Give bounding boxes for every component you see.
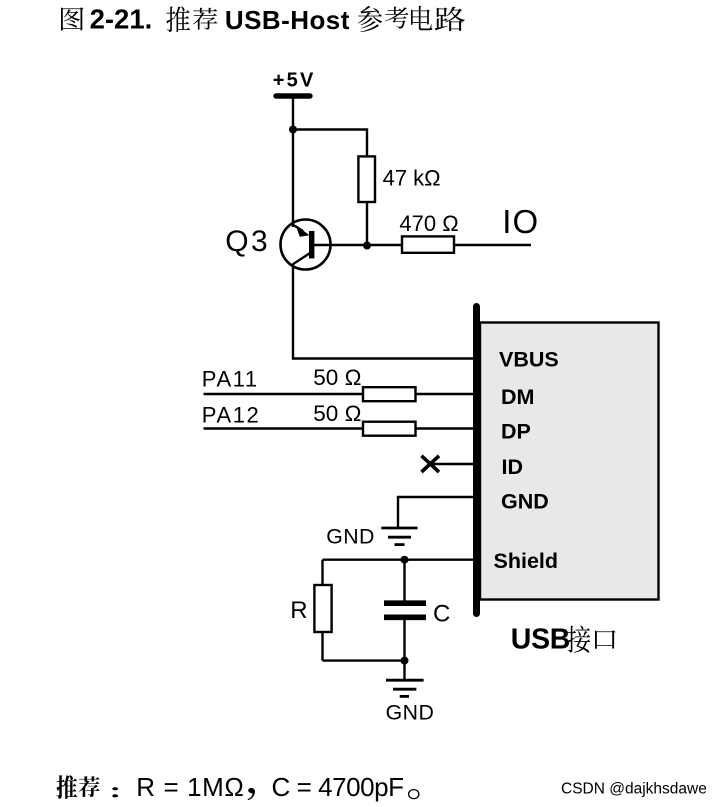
svg-text:USB: USB — [511, 624, 570, 656]
USB connector body box — [480, 323, 659, 600]
svg-text:DM: DM — [501, 385, 534, 409]
wire: X mark to ID pin — [430, 463, 473, 465]
svg-text:ID: ID — [502, 455, 524, 479]
svg-text:2-21.: 2-21. — [90, 4, 153, 35]
svg-text:GND: GND — [501, 489, 549, 513]
note: 推荐：R = 1MΩ，C = 4700pF。 — [56, 775, 77, 799]
node: junction base wire / 47k — [363, 242, 371, 250]
svg-text:50 Ω: 50 Ω — [313, 365, 361, 390]
svg-text:R = 1MΩ: R = 1MΩ — [136, 772, 244, 802]
title: 图 2-21. 推荐 USB-Host 参考电路 — [61, 7, 83, 30]
wire: junction to 47k resistor top — [293, 130, 367, 158]
resistor 50 Ohm body (DM line) — [363, 387, 416, 401]
capacitor C bottom plate — [384, 614, 426, 620]
wire: +5V bar down to transistor emitter — [292, 96, 294, 227]
svg-text:C = 4700pF: C = 4700pF — [272, 772, 404, 802]
wire: shield junction down to capacitor C — [403, 560, 405, 601]
resistor R body — [314, 585, 331, 632]
svg-text:PA11: PA11 — [202, 366, 259, 391]
wire: base to 470 resistor — [314, 244, 402, 246]
svg-text:Q3: Q3 — [225, 225, 270, 258]
transistor Q3 emitter lead with PNP arrow — [293, 225, 304, 232]
svg-text:GND: GND — [326, 525, 375, 549]
wire: collector down and right to VBUS pin — [293, 264, 473, 359]
wire: 47k resistor bottom to base wire — [366, 202, 368, 246]
wire: PA12 to 50 ohm resistor — [204, 427, 364, 429]
wire: 50 ohm resistor to DM pin — [416, 393, 474, 395]
svg-text:CSDN @dajkhsdawe: CSDN @dajkhsdawe — [561, 781, 707, 798]
svg-text:R: R — [290, 597, 307, 624]
svg-text:DP: DP — [501, 419, 531, 443]
capacitor C top plate — [384, 600, 426, 606]
svg-text:470 Ω: 470 Ω — [399, 211, 458, 236]
svg-text:IO: IO — [502, 203, 539, 240]
wire: bottom rail R to C — [323, 659, 405, 661]
svg-text:50 Ω: 50 Ω — [313, 401, 361, 426]
USB connector pin header bar — [473, 307, 480, 614]
transistor Q3 circle — [281, 220, 331, 270]
wire: PA11 to 50 ohm resistor — [204, 393, 364, 395]
wire: 470 resistor to IO — [454, 244, 531, 246]
wire: junction down to bottom ground — [403, 661, 405, 680]
svg-text:Shield: Shield — [494, 549, 559, 573]
svg-text:VBUS: VBUS — [499, 348, 559, 372]
svg-text:GND: GND — [386, 701, 435, 725]
+5V power rail bar — [276, 93, 310, 98]
resistor 47 kOhm body — [358, 156, 375, 202]
wire: GND pin to ground symbol — [398, 497, 473, 528]
node: junction bottom rail — [401, 657, 409, 665]
svg-text:47 kΩ: 47 kΩ — [383, 165, 441, 190]
node: junction on +5V branch — [289, 126, 297, 134]
no-connect X mark on ID pin — [422, 456, 440, 472]
ground symbol (GND pin) — [381, 527, 417, 530]
svg-text:C: C — [433, 601, 450, 628]
ground symbol (bottom) — [386, 679, 424, 682]
wire: Shield pin line — [323, 559, 474, 561]
resistor 470 Ohm body — [402, 236, 454, 252]
node: junction on shield line — [401, 556, 409, 564]
wire: 50 ohm resistor to DP pin — [416, 427, 474, 429]
transistor Q3 base bar — [309, 231, 314, 258]
svg-text:PA12: PA12 — [202, 402, 261, 427]
wire: R bottom to bottom rail — [321, 632, 323, 661]
svg-text:+5V: +5V — [273, 69, 316, 91]
wire: capacitor bottom to bottom rail — [403, 620, 405, 661]
svg-text:USB-Host: USB-Host — [225, 5, 350, 35]
transistor Q3 collector lead — [293, 253, 311, 265]
wire: shield line down to resistor R — [321, 560, 323, 585]
resistor 50 Ohm body (DP line) — [363, 422, 416, 436]
